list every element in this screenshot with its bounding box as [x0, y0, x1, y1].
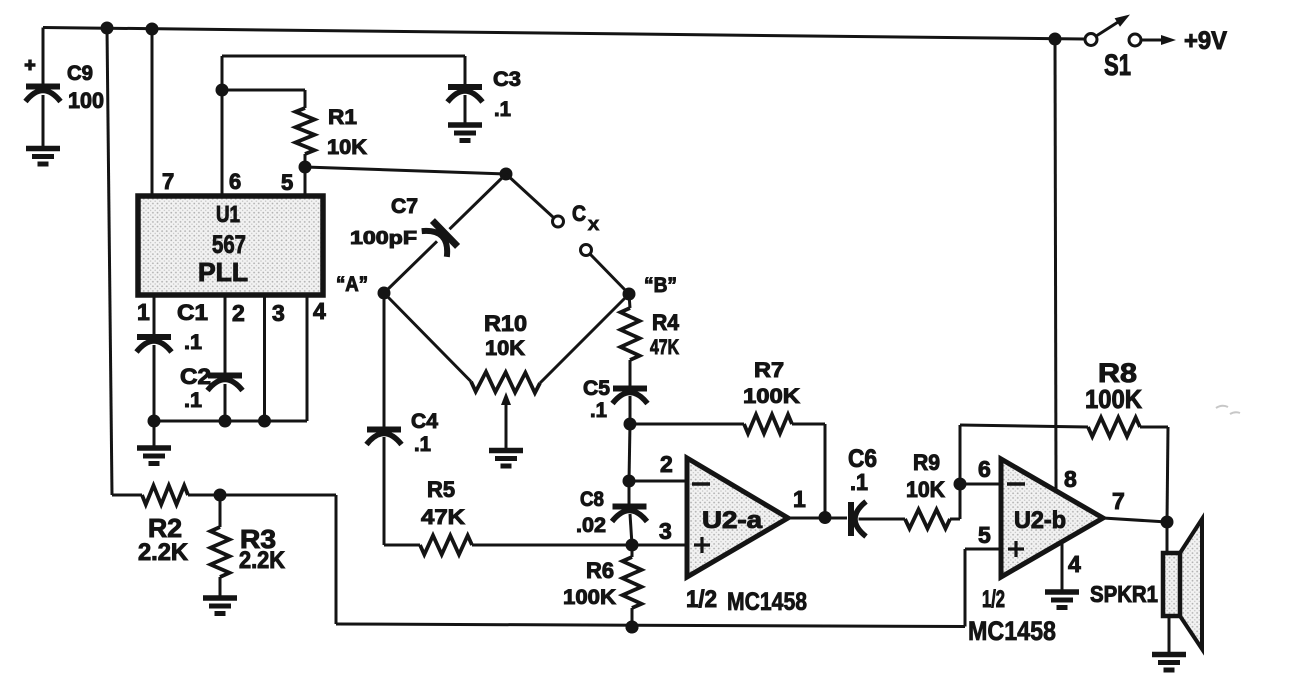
svg-text:R7: R7 [754, 359, 784, 382]
svg-text:.1: .1 [590, 399, 607, 422]
svg-text:C3: C3 [493, 68, 521, 91]
svg-text:1: 1 [137, 299, 150, 325]
svg-text:.1: .1 [850, 469, 868, 495]
svg-text:PLL: PLL [198, 257, 248, 287]
svg-text:R5: R5 [427, 477, 455, 502]
svg-text:2: 2 [660, 451, 673, 477]
svg-text:SPKR1: SPKR1 [1090, 581, 1158, 607]
svg-text:C5: C5 [583, 377, 610, 400]
svg-text:6: 6 [978, 456, 991, 482]
svg-text:47K: 47K [650, 336, 679, 359]
svg-text:100pF: 100pF [350, 228, 417, 248]
svg-text:C8: C8 [580, 488, 604, 511]
svg-text:MC1458: MC1458 [727, 588, 807, 616]
svg-text:1: 1 [793, 486, 806, 512]
svg-text:2: 2 [232, 300, 245, 326]
svg-text:.02: .02 [576, 514, 606, 537]
svg-text:U1: U1 [216, 201, 240, 227]
svg-text:C4: C4 [411, 410, 438, 433]
svg-text:47K: 47K [421, 506, 465, 529]
svg-text:4: 4 [313, 298, 326, 324]
svg-text:5: 5 [978, 522, 991, 548]
svg-text:R9: R9 [913, 450, 940, 475]
svg-text:4: 4 [1068, 551, 1081, 577]
svg-text:U2-a: U2-a [702, 507, 763, 534]
svg-text:S1: S1 [1104, 49, 1131, 82]
svg-text:“A”: “A” [336, 273, 368, 296]
svg-text:10K: 10K [327, 136, 367, 159]
svg-text:7: 7 [1112, 488, 1125, 514]
svg-text:7: 7 [162, 169, 174, 194]
svg-text:R10: R10 [484, 311, 527, 336]
svg-text:10K: 10K [485, 337, 525, 360]
svg-text:.1: .1 [184, 389, 202, 412]
svg-text:1/2: 1/2 [686, 586, 717, 613]
svg-text:.1: .1 [494, 98, 511, 121]
svg-text:.1: .1 [184, 331, 202, 354]
svg-text:C9: C9 [67, 62, 93, 85]
svg-text:MC1458: MC1458 [968, 616, 1056, 646]
svg-text:.1: .1 [414, 433, 431, 456]
svg-text:C2: C2 [180, 364, 211, 389]
svg-text:8: 8 [1064, 466, 1077, 492]
svg-text:X: X [588, 217, 599, 234]
svg-text:10K: 10K [906, 477, 945, 502]
svg-text:6: 6 [229, 169, 241, 194]
svg-text:100K: 100K [1085, 384, 1142, 414]
svg-text:C7: C7 [391, 195, 418, 218]
svg-text:+9V: +9V [1184, 27, 1227, 55]
svg-text:100: 100 [68, 88, 104, 113]
svg-text:5: 5 [281, 170, 293, 195]
svg-text:3: 3 [659, 518, 672, 544]
svg-text:R1: R1 [328, 106, 357, 129]
svg-text:3: 3 [272, 300, 285, 326]
svg-text:C: C [572, 201, 586, 226]
svg-text:100K: 100K [743, 385, 800, 408]
svg-text:2.2K: 2.2K [138, 539, 189, 566]
svg-text:C1: C1 [177, 300, 208, 325]
svg-text:2.2K: 2.2K [239, 547, 286, 574]
svg-text:100K: 100K [563, 586, 616, 609]
svg-text:R4: R4 [652, 310, 680, 335]
svg-text:U2-b: U2-b [1014, 507, 1066, 534]
svg-text:“B”: “B” [644, 274, 677, 297]
svg-text:567: 567 [212, 231, 246, 259]
svg-text:R6: R6 [586, 558, 614, 583]
svg-text:1/2: 1/2 [982, 586, 1005, 613]
